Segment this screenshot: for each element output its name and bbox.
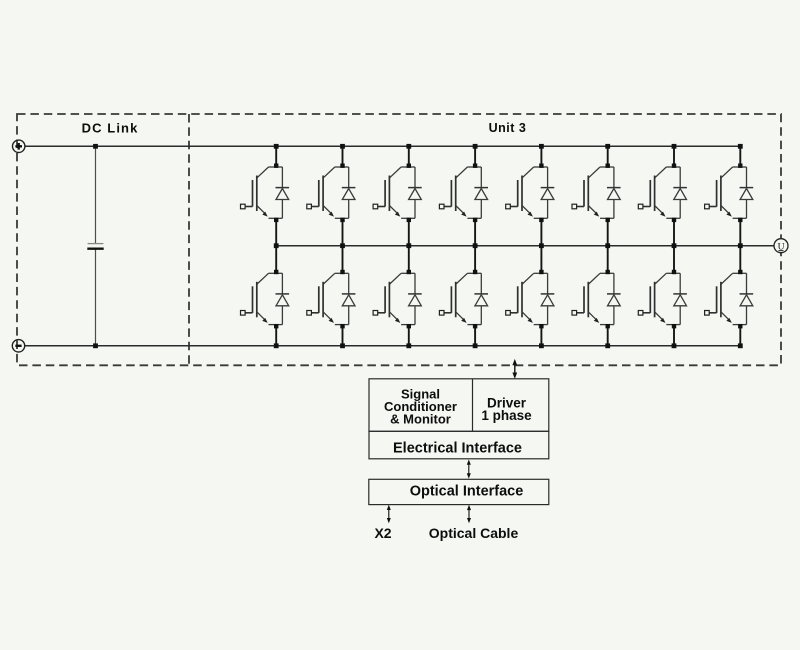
svg-text:Electrical Interface: Electrical Interface [393, 440, 522, 456]
svg-text:DC Link: DC Link [82, 120, 139, 135]
svg-text:Unit 3: Unit 3 [489, 121, 527, 135]
svg-text:& Monitor: & Monitor [390, 411, 451, 426]
svg-text:X2: X2 [374, 525, 391, 541]
svg-text:1 phase: 1 phase [481, 408, 532, 423]
svg-text:Optical Interface: Optical Interface [410, 484, 524, 500]
svg-text:Optical Cable: Optical Cable [429, 525, 519, 541]
